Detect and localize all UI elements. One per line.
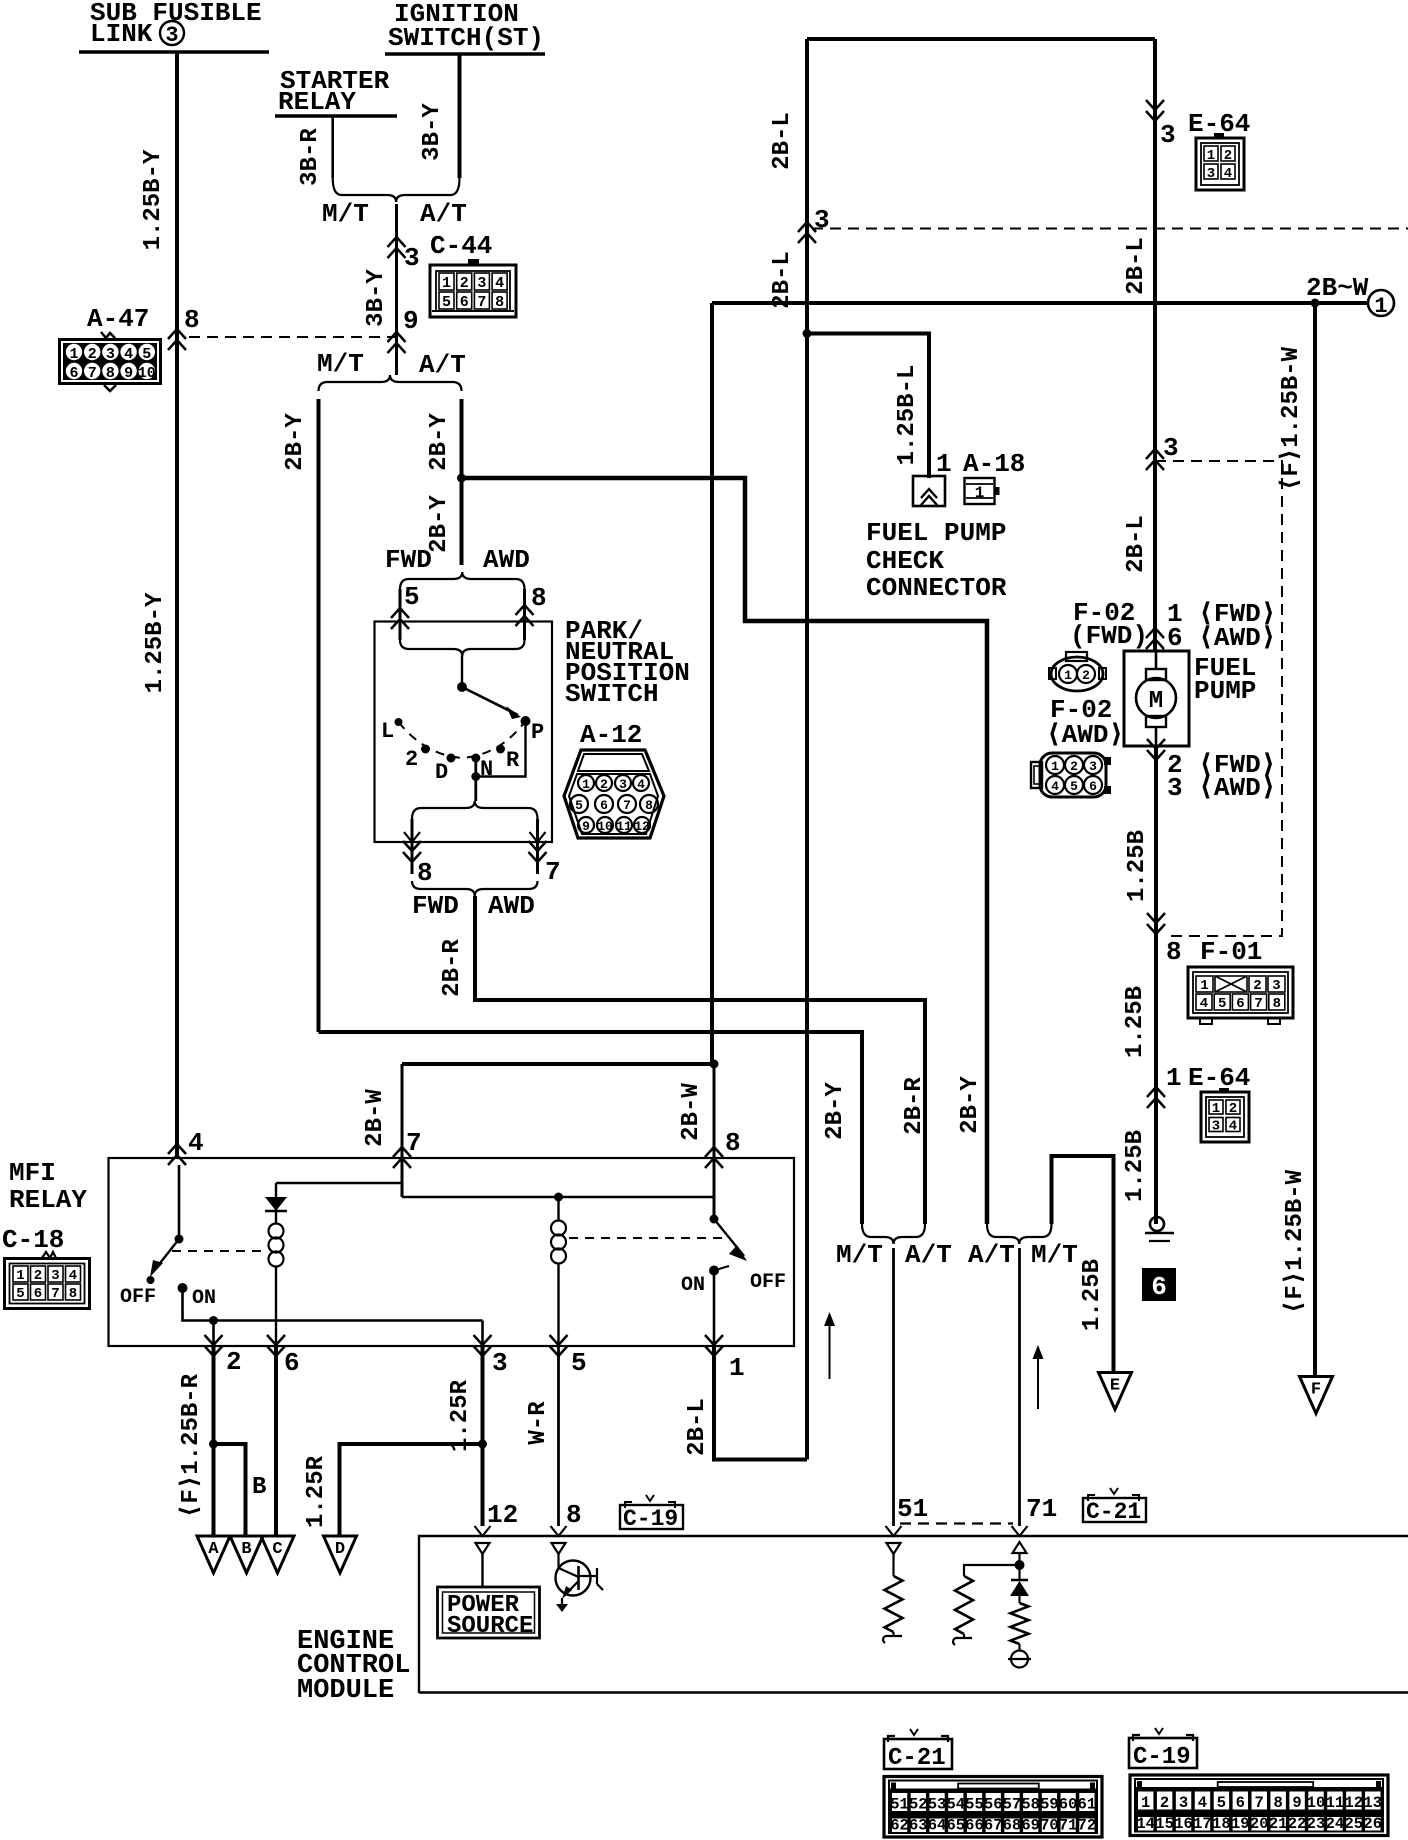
svg-text:⟨F⟩1.25B-W: ⟨F⟩1.25B-W: [1282, 1169, 1309, 1314]
svg-text:5: 5: [1217, 1794, 1226, 1812]
svg-text:2B-W: 2B-W: [678, 1083, 705, 1141]
svg-text:1: 1: [1064, 668, 1072, 683]
wire 1.25B M/T branch to ground E: [1052, 1156, 1114, 1372]
connector E-64 body top: [1196, 138, 1244, 190]
wire relay pin 6 down to ground C: [274, 1346, 278, 1536]
svg-text:1.25B: 1.25B: [1079, 1259, 1106, 1331]
svg-text:8: 8: [645, 798, 653, 813]
svg-text:72: 72: [1078, 1817, 1097, 1835]
svg-text:A-18: A-18: [963, 449, 1025, 479]
svg-text:70: 70: [1040, 1817, 1059, 1835]
wire from brace to ECM pin 71: [1018, 1248, 1021, 1526]
svg-text:A: A: [208, 1540, 219, 1559]
svg-text:6: 6: [69, 365, 78, 382]
svg-text:7: 7: [623, 798, 631, 813]
svg-text:B: B: [241, 1540, 251, 1559]
svg-text:E: E: [1110, 1377, 1120, 1396]
svg-text:M: M: [1149, 688, 1163, 715]
svg-text:A-12: A-12: [580, 720, 642, 750]
svg-text:13: 13: [1363, 1794, 1382, 1812]
wire relay pin 4 internal to switch 1 pivot: [178, 1165, 181, 1239]
svg-text:71: 71: [1026, 1494, 1057, 1524]
svg-text:62: 62: [890, 1817, 909, 1835]
svg-text:2B-Y: 2B-Y: [426, 413, 453, 471]
MFI relay box: [109, 1158, 795, 1346]
svg-text:1.25B: 1.25B: [1124, 830, 1151, 902]
wire from P contact down and left to N output: [476, 721, 526, 777]
ground stack lines under ring terminal: [1145, 1232, 1174, 1235]
junction dot 2B-L branch to fuel pump check connector: [803, 329, 812, 338]
switch 1 movable arm toward OFF: [153, 1239, 179, 1272]
svg-text:7: 7: [406, 1128, 422, 1158]
svg-text:A/T: A/T: [419, 350, 466, 380]
contact dot D: [447, 754, 456, 763]
brace merge A/T-M/T to ECM pin 71: [987, 1224, 1052, 1244]
svg-text:2: 2: [34, 1268, 42, 1284]
svg-text:25: 25: [1345, 1815, 1364, 1833]
svg-text:2B-Y: 2B-Y: [957, 1076, 984, 1134]
svg-text:6: 6: [1236, 996, 1244, 1012]
svg-text:5: 5: [404, 582, 420, 612]
dashed gate arc through L 2 D N R P: [399, 721, 526, 758]
switch common wire to rotor pivot: [461, 656, 463, 687]
svg-text:5: 5: [142, 346, 151, 363]
connector pass arrow E-64 pin 1: [1147, 1087, 1165, 1108]
svg-text:1: 1: [1374, 294, 1387, 319]
svg-text:8: 8: [566, 1500, 582, 1530]
svg-text:2B-W: 2B-W: [362, 1089, 389, 1147]
svg-text:12: 12: [1345, 1794, 1364, 1812]
svg-text:4: 4: [637, 777, 645, 792]
wire relay pin 3 exit: [481, 1321, 484, 1363]
dashed mechanical link switch 1 to coil 1: [172, 1250, 264, 1252]
wire 2B-L relay pin 1 down and over to 2B-L bus: [714, 1346, 807, 1460]
connector E-64 body lower: [1201, 1092, 1249, 1142]
svg-text:L: L: [381, 719, 394, 744]
wire FWD pin 5 into switch: [399, 589, 402, 640]
svg-text:11: 11: [616, 819, 632, 834]
svg-text:23: 23: [1307, 1815, 1326, 1833]
connector pass arrow E-64 pin 3 down: [1146, 100, 1164, 121]
svg-text:2: 2: [226, 1347, 242, 1377]
ground connector triangle A: [197, 1536, 230, 1573]
svg-text:1.25B: 1.25B: [1122, 986, 1149, 1058]
wire 1.25R branch to ground D: [340, 1444, 483, 1536]
dashed link between ECM pins 51 and 71: [900, 1522, 1013, 1524]
dashed link from 2B-L pin 3 to F-01 pin 8: [1155, 461, 1282, 936]
svg-text:2: 2: [1224, 148, 1232, 164]
svg-text:8: 8: [106, 365, 115, 382]
svg-text:3: 3: [404, 243, 420, 273]
svg-text:2: 2: [1229, 1101, 1237, 1117]
ground connector triangle C: [261, 1536, 294, 1573]
svg-text:3B-Y: 3B-Y: [363, 269, 390, 327]
junction dot coil 2 top: [554, 1193, 563, 1202]
svg-text:6: 6: [1089, 779, 1097, 794]
svg-text:2B-L: 2B-L: [684, 1398, 711, 1456]
ECM pin 8 triangle marker: [552, 1543, 566, 1554]
svg-text:1: 1: [1141, 1794, 1150, 1812]
svg-text:F-01: F-01: [1200, 937, 1262, 967]
svg-text:SWITCH: SWITCH: [565, 679, 659, 709]
wire relay internal pin7 horizontal to coil 2 and switch 2: [402, 1196, 714, 1199]
svg-text:CONNECTOR: CONNECTOR: [866, 573, 1007, 603]
svg-text:60: 60: [1059, 1796, 1078, 1814]
svg-text:7: 7: [1254, 996, 1262, 1012]
connector pass arrow F-02 pin 1/6: [1146, 628, 1164, 649]
connector pass arrow below pump pin 2/3: [1147, 739, 1165, 760]
ECM resistor below diode: [1018, 1596, 1020, 1603]
svg-text:4: 4: [69, 1268, 77, 1284]
svg-text:3: 3: [492, 1348, 508, 1378]
svg-text:3B-R: 3B-R: [297, 128, 324, 186]
svg-text:10: 10: [597, 819, 613, 834]
svg-text:2B~W: 2B~W: [1306, 273, 1369, 303]
fuel pump motor circle M: [1155, 651, 1158, 669]
svg-text:8: 8: [1273, 1794, 1282, 1812]
connector A-12 12-pin round body: [564, 750, 664, 838]
ECM pin 12 triangle marker: [476, 1543, 490, 1554]
svg-text:3: 3: [1179, 1794, 1188, 1812]
wire F 1.25B-R relay pin 2 down: [212, 1346, 216, 1536]
ground connector triangle E: [1099, 1373, 1132, 1410]
connector C-19 26-pin body: [1130, 1775, 1388, 1836]
wire 2B~W into relay pin 8: [713, 1064, 716, 1219]
svg-text:SOURCE: SOURCE: [447, 1613, 533, 1640]
svg-text:2: 2: [600, 777, 608, 792]
svg-text:4: 4: [1198, 1794, 1207, 1812]
fuel pump check connector terminal box with chevrons: [913, 476, 945, 506]
wire 2B~W horizontal to connector 1: [712, 301, 1369, 305]
svg-text:2B-L: 2B-L: [769, 112, 796, 170]
wire from brace to ECM pin 51: [892, 1248, 895, 1526]
connector pass arrow C-44 pin 3: [388, 237, 406, 258]
junction dot ECM 71 node: [1015, 1560, 1025, 1570]
ECM pin 51 entry: [886, 1526, 902, 1536]
svg-text:9: 9: [582, 819, 590, 834]
svg-text:61: 61: [1078, 1796, 1097, 1814]
wire from N contact down: [474, 758, 477, 801]
svg-text:8: 8: [184, 305, 200, 335]
svg-text:4: 4: [495, 275, 504, 292]
svg-text:64: 64: [928, 1817, 947, 1835]
wire diode top to relay pin 7 node: [276, 1182, 402, 1185]
svg-text:1.25B-L: 1.25B-L: [894, 365, 921, 466]
svg-text:55: 55: [965, 1796, 984, 1814]
svg-text:F: F: [1311, 1381, 1321, 1400]
svg-text:52: 52: [909, 1796, 928, 1814]
fuel pump motor commutator bottom: [1146, 716, 1166, 727]
connector pass arrow on 2B-L at dashed F-01 link: [1146, 449, 1164, 470]
brace split M/T-A/T to 2B-Y wires: [395, 345, 398, 368]
svg-text:2: 2: [1070, 759, 1078, 774]
wire 2B-L left vertical x807 full drop: [805, 39, 809, 1460]
svg-text:1.25R: 1.25R: [447, 1379, 474, 1452]
svg-text:5: 5: [1070, 779, 1078, 794]
svg-text:2: 2: [88, 346, 97, 363]
svg-text:9: 9: [124, 365, 133, 382]
svg-text:69: 69: [1021, 1817, 1040, 1835]
switch 1 OFF contact dot: [147, 1276, 155, 1284]
svg-text:12: 12: [487, 1500, 518, 1530]
svg-text:51: 51: [897, 1494, 928, 1524]
svg-text:14: 14: [1136, 1815, 1155, 1833]
svg-text:10: 10: [1307, 1794, 1326, 1812]
svg-text:C-21: C-21: [888, 1745, 946, 1772]
svg-text:20: 20: [1250, 1815, 1269, 1833]
wire relay pin 2 exit: [212, 1321, 215, 1363]
svg-text:ON: ON: [192, 1287, 216, 1310]
ECM transistor for fuel pump relay drive: [557, 1554, 559, 1568]
connector F-01 body 8-pin with X cell: [1188, 967, 1293, 1018]
power source box: [438, 1587, 540, 1638]
wire 3B-Y from ignition switch: [458, 54, 462, 178]
wire F 1.25B-W vertical down to F triangle: [1313, 303, 1317, 1376]
rotor pivot contact: [457, 682, 467, 692]
svg-text:1: 1: [1051, 759, 1059, 774]
svg-text:FWD: FWD: [385, 545, 432, 575]
bus bar under SUB FUSIBLE LINK: [79, 50, 269, 54]
svg-text:21: 21: [1269, 1815, 1288, 1833]
svg-text:66: 66: [965, 1817, 984, 1835]
svg-text:1: 1: [1212, 1101, 1220, 1117]
svg-text:7: 7: [545, 857, 561, 887]
dashed interconnect E-64 line to right edge: [812, 228, 1408, 230]
svg-text:9: 9: [1292, 1794, 1301, 1812]
svg-text:8: 8: [69, 1286, 77, 1302]
connector C-21 pin label box: [1110, 1488, 1118, 1494]
svg-text:71: 71: [1059, 1817, 1078, 1835]
wire 2B-L into fuel pump connector F-02: [1153, 461, 1157, 651]
svg-text:57: 57: [1003, 1796, 1022, 1814]
svg-text:51: 51: [890, 1796, 909, 1814]
svg-text:6: 6: [600, 798, 608, 813]
connector F-02 AWD 6-pin body: [1040, 753, 1106, 797]
svg-text:5: 5: [575, 798, 583, 813]
switch 1 ON contact dot: [178, 1283, 188, 1293]
svg-text:53: 53: [928, 1796, 947, 1814]
svg-text:CHECK: CHECK: [866, 546, 944, 576]
svg-text:3: 3: [51, 1268, 59, 1284]
svg-text:8: 8: [1166, 937, 1182, 967]
connector pass arrow 1.25B-Y entering MFI relay pin 4: [168, 1144, 186, 1165]
connector C-18 body 8-pin: [5, 1259, 90, 1309]
dashed interconnect line from A-47 to C-44 wire: [189, 336, 397, 338]
svg-text:4: 4: [1051, 779, 1059, 794]
switch 1 pivot contact: [175, 1235, 184, 1244]
wire W-R relay pin 5 to ECM pin 8: [557, 1346, 560, 1526]
svg-text:2B-Y: 2B-Y: [282, 413, 309, 471]
connector pass arrow relay pin 8: [705, 1147, 723, 1168]
svg-text:67: 67: [984, 1817, 1003, 1835]
svg-text:16: 16: [1174, 1815, 1193, 1833]
svg-text:8: 8: [1273, 996, 1281, 1012]
wire 3B-R from starter relay: [331, 116, 334, 178]
svg-text:5: 5: [1218, 996, 1226, 1012]
connector A-18 body 1-pin: [965, 478, 995, 504]
bus bar under IGNITION SWITCH: [385, 52, 545, 56]
svg-text:3: 3: [106, 346, 115, 363]
svg-text:2B-R: 2B-R: [439, 939, 466, 997]
svg-text:10: 10: [138, 365, 156, 382]
brace split FWD-AWD above park/neutral switch: [400, 572, 525, 589]
svg-text:15: 15: [1155, 1815, 1174, 1833]
svg-text:18: 18: [1212, 1815, 1231, 1833]
brace split to switch output pins 8 and 7: [412, 801, 538, 819]
svg-text:1.25B: 1.25B: [1122, 1130, 1149, 1202]
svg-text:1: 1: [582, 777, 590, 792]
wire 2B~W vertical x712 down to MFI relay pin 8: [710, 303, 714, 1064]
junction dot 1.25R split to D and ECM 12: [478, 1440, 487, 1449]
svg-text:M/T: M/T: [317, 349, 364, 379]
connector pass arrow 2B-L at dashed E-64 line pin 3: [798, 222, 816, 243]
svg-text:ON: ON: [681, 1274, 705, 1297]
svg-text:A/T: A/T: [420, 199, 467, 229]
connector pass arrow C-44 pin 9 on dashed A-47 line: [388, 332, 406, 353]
svg-text:1: 1: [1166, 1063, 1182, 1093]
svg-text:2B-Y: 2B-Y: [822, 1082, 849, 1140]
contact dot R: [496, 745, 505, 754]
wire 2B-Y left turning right to lower brace: [319, 1032, 863, 1224]
connector C-44 body 8-pin: [430, 265, 516, 317]
svg-text:7: 7: [51, 1286, 59, 1302]
contact dot N: [471, 754, 480, 763]
svg-text:3 ⟨AWD⟩: 3 ⟨AWD⟩: [1167, 773, 1276, 803]
svg-text:3: 3: [1272, 978, 1280, 994]
svg-text:2: 2: [1160, 1794, 1169, 1812]
ground connector triangle B: [230, 1536, 263, 1573]
contact dot P: [521, 716, 531, 726]
svg-text:26: 26: [1363, 1815, 1382, 1833]
svg-text:1: 1: [442, 275, 451, 292]
svg-text:8: 8: [417, 858, 433, 888]
ECM pin 71 node wire: [1018, 1553, 1020, 1565]
svg-text:(FWD): (FWD): [1070, 621, 1148, 651]
connector pass arrow relay pin 7: [393, 1147, 411, 1168]
svg-text:65: 65: [946, 1817, 965, 1835]
svg-text:1: 1: [1207, 148, 1215, 164]
svg-text:5: 5: [16, 1286, 24, 1302]
svg-text:8: 8: [725, 1128, 741, 1158]
svg-text:N: N: [480, 757, 493, 782]
svg-text:R: R: [506, 748, 520, 773]
svg-text:2B-L: 2B-L: [1123, 237, 1150, 295]
ECM pin 12 entry: [475, 1526, 491, 1536]
wire 1.25R relay pin 3 down: [481, 1346, 485, 1526]
svg-text:6: 6: [284, 1348, 300, 1378]
ring terminal eyelet at end of 1.25B: [1150, 1217, 1164, 1231]
svg-text:7: 7: [88, 365, 97, 382]
wire thick 2B-Y feed right-down-right to lower A/T brace: [462, 478, 988, 1224]
wire switch pin 8 output FWD: [411, 819, 414, 874]
svg-text:22: 22: [1288, 1815, 1307, 1833]
wire switch pin 7 output AWD: [536, 819, 539, 874]
svg-text:2: 2: [405, 747, 418, 772]
svg-text:M/T: M/T: [1031, 1240, 1078, 1270]
transistor emitter ground arrow: [561, 1598, 563, 1604]
svg-text:5: 5: [442, 294, 451, 311]
svg-text:3: 3: [1207, 166, 1215, 182]
connector C-21 label box: [910, 1729, 918, 1735]
switch 2 ON contact dot: [709, 1266, 719, 1276]
ECM pin 8 entry: [551, 1526, 567, 1536]
svg-text:FUEL PUMP: FUEL PUMP: [866, 518, 1006, 548]
svg-text:8: 8: [495, 294, 504, 311]
svg-text:LINK: LINK: [90, 19, 153, 49]
ECM pin 71 entry: [1012, 1526, 1028, 1536]
svg-text:56: 56: [984, 1796, 1003, 1814]
junction dot branch to B: [209, 1440, 218, 1449]
svg-text:3: 3: [1163, 433, 1179, 463]
wire 1.25B below fuel pump: [1154, 746, 1158, 1224]
up arrow direction marker right: [1037, 1353, 1039, 1409]
svg-text:4: 4: [1229, 1119, 1237, 1135]
svg-text:A-47: A-47: [87, 304, 149, 334]
svg-text:⟨AWD⟩: ⟨AWD⟩: [1046, 720, 1124, 750]
svg-text:1: 1: [975, 484, 985, 502]
engine control module box: [419, 1536, 1408, 1693]
relay coil 2: [557, 1197, 559, 1221]
brace merge M/T-A/T below starter relay and ignition switch: [333, 178, 460, 202]
wire branch to ground B: [214, 1444, 246, 1536]
switch 2 pivot contact: [710, 1215, 719, 1224]
svg-text:1: 1: [936, 449, 952, 479]
svg-text:9: 9: [403, 306, 419, 336]
brace inside switch joining pins 5 and 8: [400, 640, 525, 656]
svg-text:3: 3: [1212, 1119, 1220, 1135]
ECM pin 71 triangle marker up: [1013, 1542, 1027, 1553]
connector pass arrow F-01 pin 8: [1147, 913, 1165, 934]
svg-text:D: D: [435, 760, 448, 785]
svg-text:A/T: A/T: [905, 1240, 952, 1270]
wire 1.25B-L branch to A-18: [807, 334, 929, 479]
svg-text:RELAY: RELAY: [9, 1185, 87, 1215]
svg-text:19: 19: [1231, 1815, 1250, 1833]
svg-text:C-19: C-19: [1133, 1744, 1191, 1771]
inline connector circle 1: [1368, 290, 1394, 316]
wire 2B-W left vertical to relay pin 7: [402, 1062, 714, 1066]
connector C-21 72-pin body: [884, 1777, 1102, 1838]
svg-text:2B-L: 2B-L: [1123, 515, 1150, 573]
junction dot 2B~W to F wire: [1311, 299, 1320, 308]
svg-text:6: 6: [1236, 1794, 1245, 1812]
wire 2B-R from switch output to lower brace: [475, 896, 925, 1224]
svg-text:FWD: FWD: [412, 891, 459, 921]
wire from ON contact down and right along relay bottom: [183, 1288, 483, 1321]
contact dot L: [395, 718, 403, 726]
svg-text:2B-L: 2B-L: [769, 251, 796, 309]
svg-text:C-18: C-18: [2, 1225, 64, 1255]
svg-text:⟨F⟩1.25B-R: ⟨F⟩1.25B-R: [178, 1373, 205, 1518]
svg-text:C: C: [272, 1540, 282, 1559]
svg-text:3: 3: [814, 205, 830, 235]
svg-text:63: 63: [909, 1817, 928, 1835]
svg-text:4: 4: [1224, 166, 1232, 182]
svg-text:3: 3: [477, 275, 486, 292]
connector pass arrow relay pin 6 exit: [267, 1335, 285, 1356]
svg-text:1.25R: 1.25R: [303, 1455, 330, 1528]
connector C-19 label box: [1155, 1728, 1163, 1734]
svg-text:3: 3: [619, 777, 627, 792]
connector pass arrow on 1.25B-Y at A-47 dashed line: [168, 329, 186, 350]
svg-text:7: 7: [1255, 1794, 1264, 1812]
junction dot N output: [471, 772, 480, 781]
connector F-02 FWD 2-pin oval body: [1066, 652, 1087, 661]
svg-text:2: 2: [1253, 978, 1261, 994]
park/neutral position switch box: [375, 622, 553, 843]
svg-text:C-44: C-44: [430, 231, 492, 261]
ECM internal supply symbol circle: [1018, 1644, 1020, 1651]
